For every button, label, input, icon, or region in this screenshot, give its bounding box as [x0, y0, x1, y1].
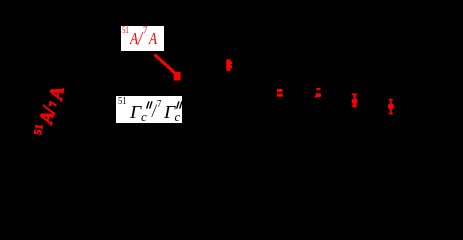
point P6: [388, 99, 394, 114]
legend box B: 51Gc''/7Gc'': [116, 96, 182, 124]
point P1 square: [174, 72, 181, 81]
plot overlay: [0, 0, 463, 177]
point P3: [277, 89, 283, 97]
point P2: [226, 59, 232, 71]
point P4: [315, 88, 321, 98]
rotated y-axis label 51A/7A: [0, 0, 1, 1]
legend box A: 51A/7A: [121, 26, 164, 51]
point P5: [352, 94, 358, 108]
leader line: [155, 55, 177, 75]
